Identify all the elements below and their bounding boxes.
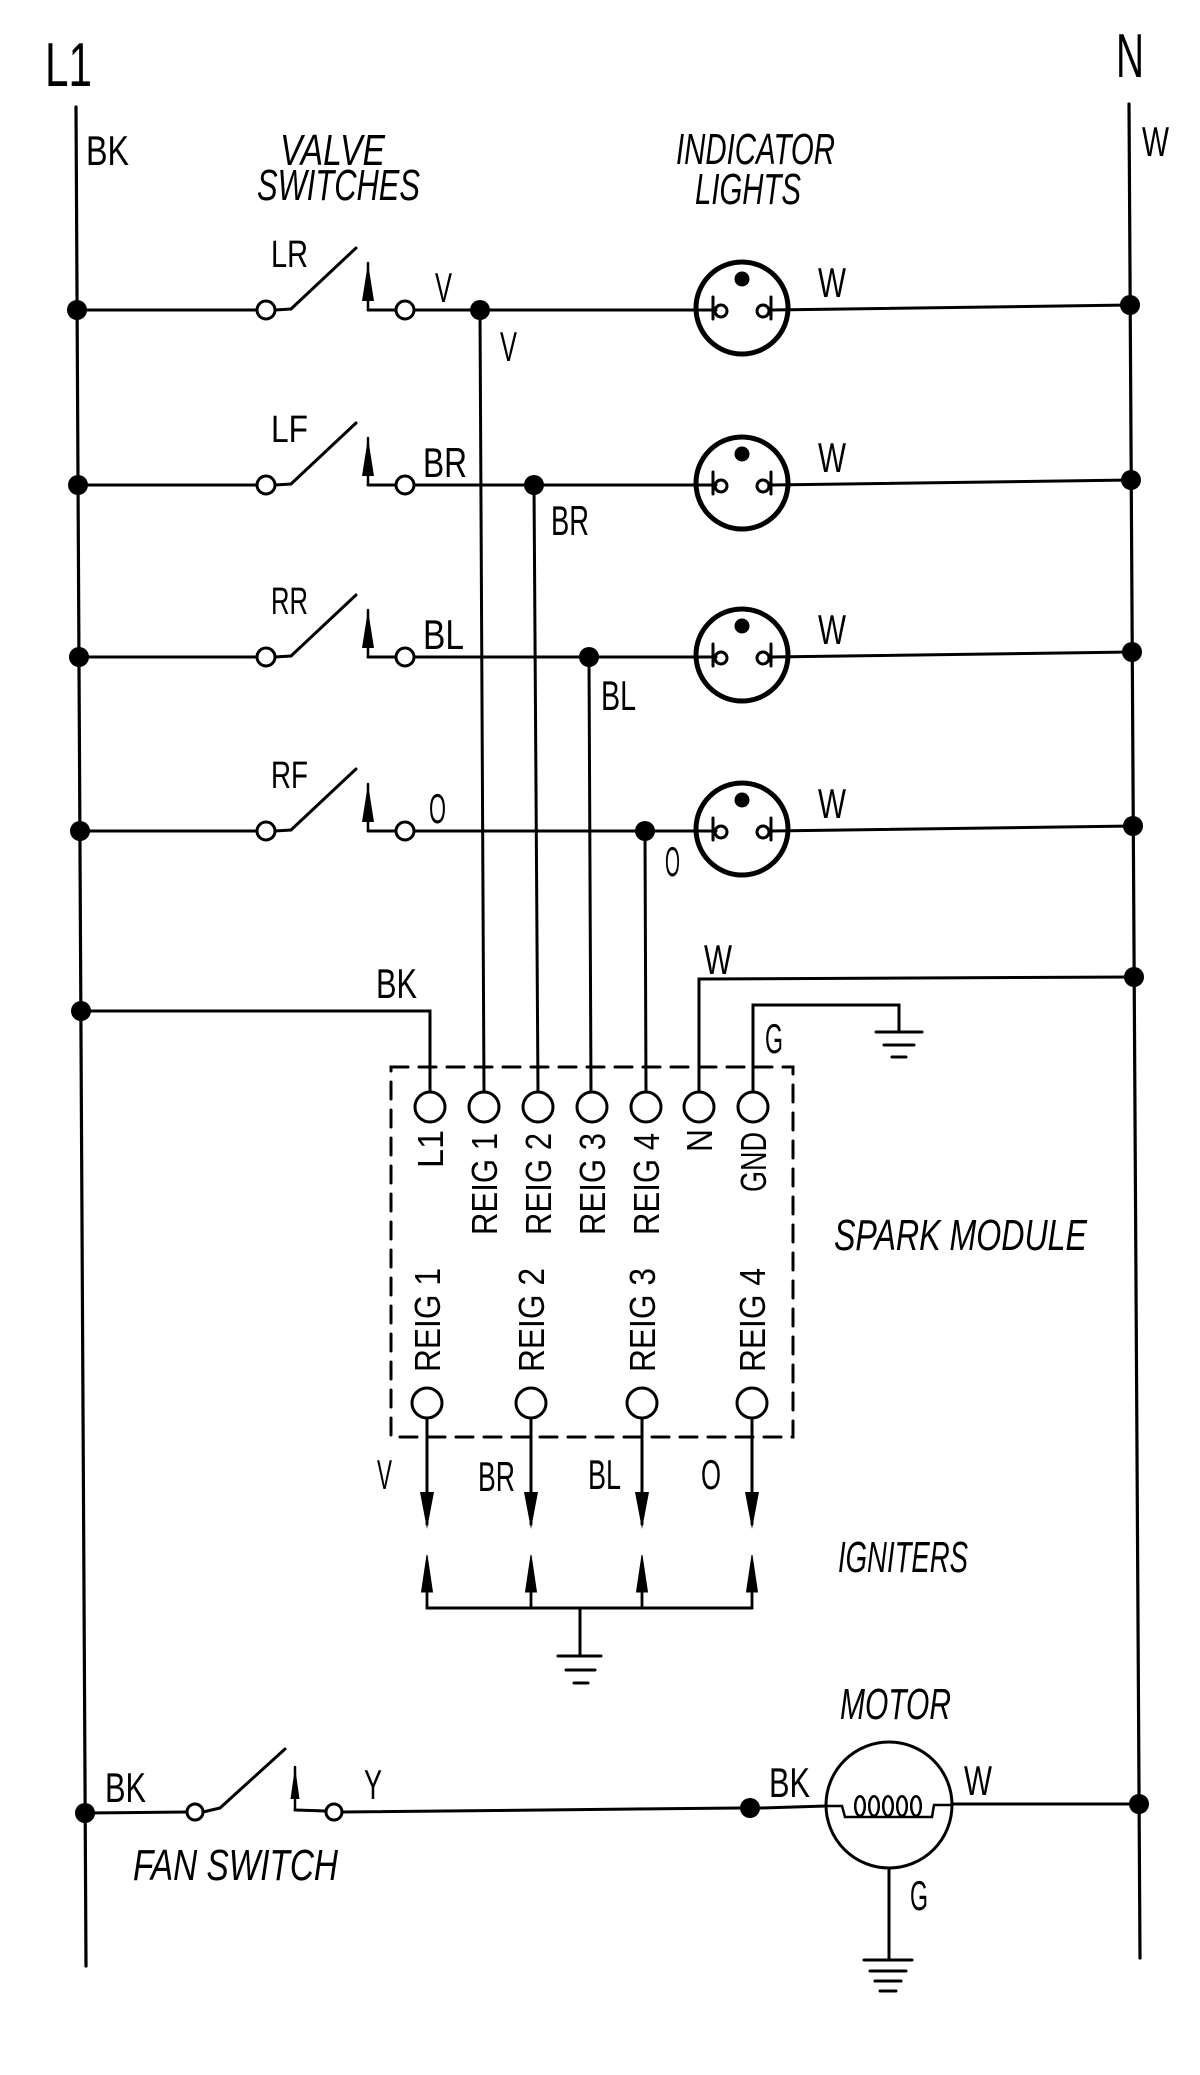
svg-text:O: O	[665, 838, 680, 885]
svg-text:O: O	[429, 785, 446, 832]
svg-text:FAN SWITCH: FAN SWITCH	[133, 1841, 338, 1890]
svg-text:BR: BR	[423, 439, 467, 486]
svg-text:O: O	[701, 1451, 721, 1498]
svg-text:V: V	[435, 264, 452, 311]
svg-text:REIG 4: REIG 4	[732, 1268, 773, 1372]
svg-text:REIG 3: REIG 3	[622, 1268, 663, 1372]
svg-text:SPARK MODULE: SPARK MODULE	[834, 1211, 1087, 1260]
svg-text:BR: BR	[551, 497, 589, 544]
svg-text:W: W	[818, 606, 846, 653]
svg-text:BR: BR	[478, 1453, 515, 1500]
svg-text:REIG 3: REIG 3	[572, 1133, 613, 1235]
svg-text:L1: L1	[45, 31, 92, 100]
svg-text:BL: BL	[423, 611, 464, 658]
svg-text:MOTOR: MOTOR	[840, 1680, 951, 1729]
svg-text:LIGHTS: LIGHTS	[695, 165, 801, 214]
svg-text:V: V	[500, 323, 517, 370]
svg-text:V: V	[377, 1451, 392, 1498]
svg-text:SWITCHES: SWITCHES	[257, 161, 420, 210]
svg-text:W: W	[818, 780, 846, 827]
svg-text:BL: BL	[588, 1451, 621, 1498]
svg-text:RF: RF	[271, 755, 308, 797]
svg-text:BK: BK	[86, 127, 129, 174]
svg-text:BK: BK	[105, 1764, 146, 1811]
svg-text:GND: GND	[733, 1132, 774, 1192]
svg-text:BK: BK	[769, 1759, 810, 1806]
svg-text:BL: BL	[601, 672, 636, 719]
svg-text:W: W	[818, 259, 846, 306]
svg-text:G: G	[765, 1015, 783, 1062]
svg-text:N: N	[1116, 22, 1144, 91]
svg-text:G: G	[910, 1872, 928, 1919]
svg-text:LR: LR	[271, 234, 308, 276]
svg-text:LF: LF	[271, 409, 308, 451]
svg-text:N: N	[679, 1129, 720, 1152]
svg-text:REIG 2: REIG 2	[511, 1268, 552, 1372]
svg-text:W: W	[964, 1757, 992, 1804]
svg-text:BK: BK	[376, 960, 417, 1007]
svg-text:W: W	[818, 434, 846, 481]
svg-text:REIG 4: REIG 4	[626, 1133, 667, 1235]
svg-text:REIG 1: REIG 1	[464, 1133, 505, 1235]
svg-text:W: W	[1142, 118, 1169, 165]
svg-text:IGNITERS: IGNITERS	[838, 1533, 968, 1582]
svg-text:L1: L1	[410, 1130, 451, 1168]
svg-text:REIG 1: REIG 1	[407, 1268, 448, 1372]
svg-text:Y: Y	[364, 1761, 382, 1808]
svg-text:W: W	[704, 936, 732, 983]
svg-text:REIG 2: REIG 2	[518, 1133, 559, 1235]
svg-text:RR: RR	[271, 581, 308, 623]
